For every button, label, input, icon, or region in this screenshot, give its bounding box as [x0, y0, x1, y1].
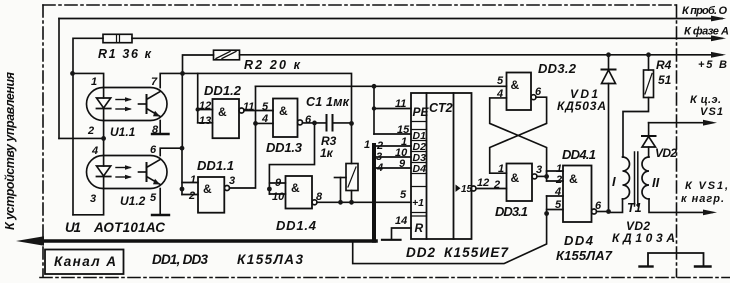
wire: K prob.O left vertical	[58, 19, 60, 139]
wire DD1.1 output top rail to DD3.2 pin5	[256, 85, 507, 87]
wire: U1.1 pin2 down to U1.2 pin4	[103, 138, 105, 155]
gate DD1.3	[273, 99, 298, 138]
wire winding I bottom to out node	[609, 199, 623, 212]
svg-text:&: &	[218, 105, 227, 119]
resistor R4	[648, 55, 650, 70]
ground U1.2 emitter	[152, 214, 169, 216]
svg-text:12: 12	[199, 100, 211, 112]
svg-text:R: R	[415, 221, 424, 235]
wire DD4.1 pins 1,2	[546, 171, 548, 181]
svg-text:C1 1мк: C1 1мк	[306, 95, 350, 109]
svg-text:+1: +1	[412, 197, 424, 209]
junction: DD4.1 pins 4,5 node	[544, 211, 549, 216]
svg-text:5: 5	[555, 199, 562, 211]
wire U1.2 collector pin6	[160, 148, 182, 155]
junction: PE stub	[372, 106, 376, 110]
wire R3 bottom	[351, 191, 353, 203]
svg-text:9: 9	[399, 158, 406, 170]
optocoupler U1.2 body	[87, 156, 168, 189]
svg-text:3: 3	[536, 164, 542, 176]
wire: K faze A rail	[132, 37, 722, 39]
junction: DD1.1 input tie	[180, 187, 185, 192]
wire DD1.2 input vertical	[197, 73, 199, 122]
junction: R1/U1.2-cathode node	[70, 71, 75, 76]
svg-text:4: 4	[554, 186, 561, 198]
wire U1.2 emitter pin5	[159, 189, 161, 215]
svg-text:К VS1,: К VS1,	[685, 180, 728, 192]
diode VD2	[648, 123, 650, 136]
svg-text:6: 6	[305, 114, 312, 126]
U1.2 phototransistor	[139, 160, 161, 185]
optocoupler U1.1 body	[87, 88, 168, 121]
svg-text:CT2: CT2	[429, 101, 453, 115]
svg-text:11: 11	[243, 101, 254, 113]
wire DD3.2 pin4 cross	[490, 98, 547, 176]
svg-text:VD2: VD2	[655, 146, 677, 160]
wire DD3.1 out to DD4.1	[537, 175, 547, 177]
svg-text:К155ЛА7: К155ЛА7	[556, 248, 613, 263]
svg-text:3: 3	[90, 193, 96, 205]
pulse waveform symbol	[640, 253, 711, 267]
svg-text:К155ИЕ7: К155ИЕ7	[444, 245, 509, 260]
wire DD4.1 pins 4,5 tie	[546, 196, 548, 214]
svg-text:R1 36 к: R1 36 к	[98, 47, 152, 61]
bold bus D2-D4 preset	[372, 145, 376, 241]
svg-text:6: 6	[150, 144, 157, 156]
svg-text:6: 6	[595, 200, 602, 212]
junction: DD3.1 out node	[544, 174, 549, 179]
junction: DD4.1 out / VD1 / T1 node	[606, 209, 611, 214]
wire: to U1.1 pin1	[73, 73, 104, 87]
junction: +5V/R4	[646, 52, 651, 57]
arrow to control device	[16, 236, 44, 245]
svg-text:DD2: DD2	[406, 245, 435, 260]
svg-text:5: 5	[150, 192, 157, 204]
svg-text:12: 12	[477, 177, 489, 189]
svg-text:U1.2: U1.2	[120, 194, 146, 208]
junction: DD1.3 out branch	[312, 121, 317, 126]
wire C1 right to node	[334, 122, 352, 124]
diode VD1	[608, 55, 610, 70]
svg-text:D4: D4	[413, 163, 427, 175]
wire branch DD1.4 inputs	[269, 123, 314, 194]
wire VS1 gate arrow line	[649, 122, 712, 124]
arrow K faze A	[711, 35, 726, 41]
wire: U1.2 pin3 bottom	[73, 189, 104, 215]
gate DD1.1	[198, 177, 224, 213]
wire U1.1 collector pin7	[160, 73, 182, 87]
gate DD4.1	[563, 166, 592, 223]
junction: DD1.1 out to DD1.3 pin4	[253, 121, 258, 126]
U1.2 LED	[97, 156, 111, 189]
wire D3 pin10	[376, 156, 411, 158]
wire DD3.2 out cross to DD3.1 pin1	[490, 97, 547, 173]
svg-text:2: 2	[493, 179, 500, 191]
svg-text:II: II	[652, 175, 660, 190]
svg-text:КД503А: КД503А	[557, 99, 606, 113]
svg-text:К ц.э.: К ц.э.	[690, 94, 721, 106]
svg-text:R2 20 к: R2 20 к	[244, 58, 301, 72]
DD2 carry out pin12	[471, 186, 476, 191]
svg-text:&: &	[569, 172, 578, 186]
wire U1.1 emitter pin8	[159, 121, 161, 134]
arrow K prob.O	[711, 16, 726, 22]
svg-text:АОТ101АС: АОТ101АС	[93, 220, 165, 235]
U1.1 light arrows	[116, 97, 132, 111]
capacitor C1	[326, 115, 328, 131]
wire R pin14 and ground	[392, 228, 412, 240]
wire DD1.3 out to C1	[303, 122, 326, 124]
svg-text:13: 13	[199, 115, 211, 127]
svg-text:8: 8	[316, 191, 323, 203]
svg-text:1к: 1к	[320, 146, 334, 160]
wire collector node to DD1.2 inputs and C1	[183, 73, 352, 123]
ground U1.1 emitter	[152, 133, 169, 135]
svg-text:2: 2	[555, 174, 562, 186]
arrow +5V	[711, 52, 726, 58]
wire +5V rail	[240, 54, 723, 56]
svg-text:R4: R4	[656, 58, 672, 72]
svg-text:&: &	[511, 78, 520, 92]
svg-text:DD4.1: DD4.1	[562, 147, 596, 162]
bold wire to control device	[30, 239, 376, 243]
svg-text:4: 4	[91, 145, 98, 157]
svg-text:4: 4	[376, 162, 383, 174]
wire branch to DD1.3 pin4	[256, 122, 274, 124]
svg-text:3: 3	[229, 175, 235, 187]
junction: U1.1-cathode/U1.2-anode node	[101, 136, 106, 141]
svg-text:2: 2	[188, 190, 195, 202]
wire DD4.1 out	[597, 211, 609, 213]
transformer T1 winding I	[623, 157, 630, 199]
junction: DD1.2 input tie	[196, 107, 200, 111]
wire: K prob.O top rail	[59, 18, 722, 20]
junction: T-bar stem on +1 wire	[338, 200, 343, 205]
svg-text:9: 9	[275, 177, 282, 189]
svg-text:DD1.3: DD1.3	[266, 140, 303, 155]
transformer T1 winding II	[642, 157, 649, 199]
DD2 carry out triangle	[456, 185, 461, 192]
svg-text:1: 1	[498, 163, 504, 175]
gate DD1.2	[213, 99, 240, 138]
svg-text:4: 4	[261, 113, 268, 125]
svg-text:К проб. О: К проб. О	[682, 5, 727, 17]
gate DD1.4	[286, 176, 313, 209]
T-bar stub on +1 wire	[335, 177, 347, 179]
svg-text:15: 15	[461, 184, 473, 195]
wire PE pin11	[373, 86, 375, 134]
junction: DD1.1 out / PE branch	[372, 84, 377, 89]
svg-text:PE: PE	[413, 105, 430, 119]
svg-text:8: 8	[152, 124, 159, 136]
svg-text:I: I	[612, 174, 616, 189]
wire R4 bottom to T1 winding I	[623, 98, 649, 158]
junction: C1/R3 node	[349, 121, 354, 126]
wire DD1.2 out to DD1.3 pin5	[244, 110, 273, 112]
wire: U1.1 pin2 to prob.O node	[59, 121, 104, 139]
U1.1 phototransistor	[139, 92, 161, 117]
junction: R2/collector node	[180, 71, 185, 76]
svg-text:14: 14	[395, 215, 407, 227]
svg-text:DD1.4: DD1.4	[276, 218, 317, 233]
wire feedback from pins4,5 to bold bus	[353, 214, 547, 264]
svg-text:К фазе А: К фазе А	[684, 26, 729, 38]
svg-text:6: 6	[535, 86, 542, 98]
svg-text:5: 5	[262, 101, 269, 113]
wire DD1.1 output up	[230, 86, 256, 188]
svg-text:К устройству управления: К устройству управления	[3, 71, 17, 230]
wire D1 pin15	[374, 133, 411, 135]
svg-text:DD3.1: DD3.1	[495, 204, 528, 219]
wire DD1.4 out to DD2 +1	[317, 201, 411, 203]
svg-text:&: &	[203, 182, 212, 196]
wire D2 pin1	[376, 145, 411, 147]
svg-text:T1: T1	[627, 201, 642, 215]
U1.1 LED	[97, 88, 111, 121]
svg-text:11: 11	[395, 98, 406, 110]
svg-text:7: 7	[151, 76, 158, 88]
svg-text:U1: U1	[65, 220, 81, 235]
resistor R1	[103, 34, 132, 42]
wire U1.2 collector node down to DD1.1 inputs	[181, 148, 183, 194]
svg-text:1: 1	[364, 139, 370, 151]
svg-text:DD1.2: DD1.2	[204, 83, 242, 98]
resistor R2	[214, 50, 240, 60]
wire: R2 pullup vertical	[183, 55, 214, 73]
junction: U1.2 collector node	[180, 146, 185, 151]
svg-text:&: &	[279, 104, 288, 118]
wire winding II bottom to load arrow	[649, 199, 712, 212]
svg-text:&: &	[291, 181, 300, 195]
kanal A box	[45, 250, 124, 275]
svg-text:51: 51	[658, 73, 672, 87]
wire R1 left	[73, 38, 103, 73]
junction: R3 bottom on +1 wire	[349, 200, 354, 205]
resistor R3	[351, 123, 353, 163]
svg-text:1: 1	[91, 76, 97, 88]
wire D4 pin9	[376, 167, 411, 169]
svg-text:Канал А: Канал А	[54, 254, 116, 269]
svg-text:5: 5	[400, 189, 407, 201]
gate DD3.2	[507, 73, 532, 111]
counter DD2 K155IE7	[411, 93, 472, 239]
junction: DD1.4 input tie	[267, 187, 272, 192]
svg-text:5: 5	[497, 75, 504, 87]
junction: +5V/VD1	[606, 52, 611, 57]
svg-text:к нагр.: к нагр.	[681, 193, 724, 205]
svg-text:4: 4	[496, 88, 503, 100]
svg-text:10: 10	[272, 191, 285, 203]
svg-text:VS1: VS1	[700, 106, 723, 118]
T1 core	[634, 152, 636, 206]
svg-text:2: 2	[87, 125, 94, 137]
svg-text:15: 15	[397, 124, 410, 136]
wire: node to U1.2 cathode, left vertical	[72, 73, 74, 214]
svg-text:КД103А: КД103А	[612, 231, 675, 245]
svg-text:DD4: DD4	[564, 233, 594, 248]
gate DD3.1	[507, 164, 533, 202]
svg-text:DD1.1: DD1.1	[197, 158, 234, 173]
wire: collector tie U1.1-U1.2	[181, 73, 183, 148]
svg-text:+5 В: +5 В	[698, 59, 727, 71]
svg-text:DD3.2: DD3.2	[538, 61, 577, 76]
U1.2 light arrows	[116, 165, 132, 179]
svg-text:К155ЛА3: К155ЛА3	[237, 252, 303, 267]
svg-text:U1.1: U1.1	[110, 125, 136, 139]
svg-text:&: &	[511, 171, 520, 185]
svg-text:1: 1	[190, 174, 196, 186]
svg-text:DD1, DD3: DD1, DD3	[152, 252, 208, 267]
